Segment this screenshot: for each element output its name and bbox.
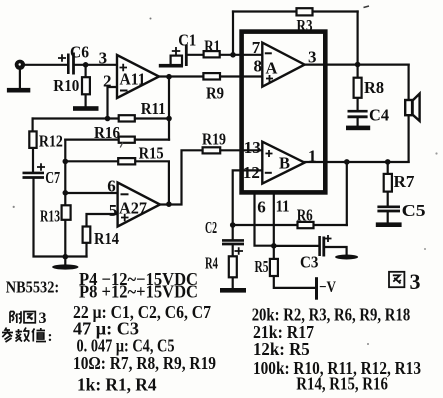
wire ground stub bottom-left bbox=[64, 257, 66, 265]
CJK 值 (zhi) bbox=[32, 328, 46, 342]
wire R5 to -V bbox=[274, 276, 315, 288]
wire C1 to R1 bbox=[187, 54, 203, 56]
wire C4 to ground bbox=[357, 118, 359, 127]
wire node to C3 bbox=[274, 245, 319, 247]
svg-text:5: 5 bbox=[109, 201, 118, 220]
svg-text:C6: C6 bbox=[70, 42, 89, 61]
wire R11 left segment bbox=[33, 117, 119, 119]
wire R6 right segment bbox=[314, 224, 347, 226]
op-amp B (lower half) bbox=[262, 142, 304, 184]
svg-text:3: 3 bbox=[99, 49, 108, 68]
wire R14 bottom lead bbox=[85, 243, 87, 257]
wire jack stub to ground bbox=[19, 69, 21, 89]
node pin6-11/R5/C3 bbox=[271, 243, 277, 249]
wire R16 left segment bbox=[65, 139, 118, 141]
wire A27 pin6 bbox=[65, 192, 117, 194]
svg-text:3: 3 bbox=[308, 47, 317, 66]
node A27 output bbox=[166, 201, 172, 207]
svg-text:3: 3 bbox=[410, 269, 421, 294]
capacitor C5 bbox=[377, 207, 400, 211]
wire R10 bottom lead bbox=[84, 94, 86, 105]
speaker BL bbox=[405, 94, 419, 121]
svg-text:13: 13 bbox=[244, 138, 261, 157]
wire A11 output to R9 bbox=[159, 75, 203, 77]
wire C3 to ground bbox=[325, 247, 347, 256]
ground (R10) bbox=[73, 106, 99, 111]
capacitor C4 bbox=[348, 111, 368, 117]
ground (bottom left) bbox=[52, 264, 78, 269]
wire R11 right segment bbox=[135, 117, 169, 119]
input jack J bbox=[15, 60, 25, 70]
resistor R14 bbox=[83, 227, 91, 243]
IC box U1 bbox=[242, 32, 326, 193]
resistor R16 bbox=[119, 137, 135, 143]
wire A27 output to R19 riser bbox=[160, 150, 203, 204]
scan speck bottom bbox=[367, 343, 369, 345]
ground (R4) bbox=[220, 288, 246, 293]
svg-text:B: B bbox=[279, 154, 290, 173]
ground (C3) bbox=[335, 255, 358, 260]
wire C2 to R4 bbox=[232, 245, 234, 256]
node A11 input (C6/R10) bbox=[83, 62, 89, 68]
ground (jack) bbox=[7, 88, 30, 93]
CJK 数 (shu) bbox=[16, 328, 30, 342]
svg-text:−V: −V bbox=[319, 279, 336, 296]
wire R7 top lead bbox=[387, 162, 389, 174]
svg-text:1: 1 bbox=[308, 147, 317, 166]
svg-text:A: A bbox=[266, 59, 278, 78]
wire R3 left riser bbox=[232, 12, 234, 55]
wire R6 riser to output1 bbox=[346, 162, 348, 225]
svg-text:R14, R15, R16: R14, R15, R16 bbox=[296, 374, 388, 394]
wire R7 to C5 bbox=[387, 192, 389, 206]
wire output1 to speaker column bbox=[305, 161, 409, 163]
wire R19 to pin13 bbox=[220, 149, 262, 151]
svg-text:A11: A11 bbox=[120, 70, 146, 89]
svg-text::: : bbox=[48, 329, 53, 345]
wire R12 top lead bbox=[31, 119, 33, 132]
resistor R3 bbox=[297, 8, 313, 15]
wire C5 to ground bbox=[387, 212, 389, 223]
svg-text:R15: R15 bbox=[139, 144, 164, 163]
node R15 left bbox=[63, 159, 69, 165]
svg-text:R16: R16 bbox=[94, 123, 120, 142]
wire pin6 down and right bbox=[255, 195, 274, 246]
wire pin11 down to R5 bbox=[273, 195, 275, 259]
wire R3 right riser down bbox=[357, 12, 359, 78]
svg-text:P8 +12~+15VDC: P8 +12~+15VDC bbox=[79, 282, 198, 302]
resistor R4 bbox=[229, 256, 237, 277]
wire bottom ground bus bbox=[65, 255, 86, 257]
CJK 参 (can) bbox=[2, 328, 13, 343]
capacitor C7 bbox=[23, 163, 46, 177]
resistor R6 bbox=[298, 222, 314, 228]
svg-text:2: 2 bbox=[103, 72, 112, 91]
ground (C1 bar) bbox=[159, 64, 183, 68]
svg-text:R19: R19 bbox=[202, 129, 226, 148]
wire R16 right segment bbox=[135, 139, 169, 141]
svg-text:8: 8 bbox=[254, 57, 263, 76]
resistor R7 bbox=[384, 174, 392, 192]
wire output3 to speaker column bbox=[305, 63, 409, 65]
wire R3 to right riser bbox=[313, 10, 358, 12]
svg-text:C5: C5 bbox=[402, 201, 426, 220]
resistor R8 bbox=[354, 78, 362, 98]
svg-text:6: 6 bbox=[257, 198, 266, 217]
node R11/output riser bbox=[166, 116, 172, 122]
wire A27 pin5 to R14 bbox=[87, 214, 118, 227]
node pin2/R11 bbox=[105, 116, 111, 122]
svg-text:R10: R10 bbox=[53, 76, 79, 95]
node A11 output bbox=[166, 74, 172, 80]
svg-text:C4: C4 bbox=[369, 105, 389, 124]
svg-text:3: 3 bbox=[39, 310, 47, 327]
node R1/R3 bbox=[230, 52, 236, 58]
CJK 图 (tu) large for 图3 bbox=[389, 272, 404, 287]
wire R12 to C7 bbox=[32, 148, 34, 172]
wire top bus to R3 bbox=[233, 10, 297, 12]
scan speck left bbox=[13, 206, 15, 208]
svg-text:R3: R3 bbox=[297, 16, 313, 35]
svg-text:C2: C2 bbox=[205, 218, 217, 237]
svg-text:10Ω: R7, R8, R9, R19: 10Ω: R7, R8, R9, R19 bbox=[73, 353, 216, 373]
wire R15 right segment to A27 output bbox=[135, 161, 169, 204]
svg-text:R6: R6 bbox=[297, 206, 313, 225]
wire node to C2 bbox=[232, 225, 234, 239]
svg-text:A27: A27 bbox=[119, 199, 147, 218]
node pin6 A27 bbox=[63, 190, 69, 196]
wire R15 left segment bbox=[65, 160, 118, 162]
svg-text:C1: C1 bbox=[178, 31, 196, 50]
svg-text:12: 12 bbox=[243, 163, 260, 182]
node output3/R3/R8 bbox=[355, 62, 361, 68]
svg-text:R7: R7 bbox=[394, 172, 416, 191]
svg-text:R11: R11 bbox=[141, 99, 166, 118]
svg-text:R12: R12 bbox=[39, 132, 63, 151]
svg-text:C3: C3 bbox=[300, 253, 319, 272]
scan speck right lower bbox=[424, 248, 426, 250]
svg-text:NB5532:: NB5532: bbox=[6, 278, 60, 297]
wire R4 to ground bbox=[232, 277, 234, 288]
svg-text:C7: C7 bbox=[45, 168, 60, 187]
scan speck top right bbox=[364, 6, 370, 8]
wire input jack to C6 bbox=[25, 64, 68, 66]
capacitor C1 (+ plate grounded) bbox=[171, 45, 187, 66]
op-amp A (upper half) bbox=[262, 43, 304, 87]
svg-text:R4: R4 bbox=[205, 254, 218, 273]
wire R8 bottom to C4 bbox=[357, 98, 359, 110]
node pin12/R6/C2 bbox=[230, 222, 236, 228]
wire node to R6 bbox=[233, 224, 298, 226]
resistor R9 bbox=[203, 73, 220, 79]
resistor R15 bbox=[118, 158, 135, 164]
scan speck mid bbox=[150, 18, 152, 20]
resistor R1 bbox=[204, 51, 220, 57]
wire R10 top lead bbox=[84, 65, 86, 77]
wire A11 pin2 bbox=[108, 87, 118, 119]
resistor R13 bbox=[62, 205, 71, 220]
resistor R19 bbox=[203, 147, 221, 153]
svg-text:R1: R1 bbox=[204, 36, 220, 55]
capacitor C2 bbox=[222, 240, 244, 254]
op-amp A27 bbox=[118, 183, 160, 227]
ground (C4) bbox=[346, 126, 370, 131]
svg-text:6: 6 bbox=[107, 176, 116, 195]
CJK 附 (fu) bbox=[10, 311, 22, 323]
svg-text:R9: R9 bbox=[206, 83, 224, 102]
svg-text:R5: R5 bbox=[255, 257, 269, 276]
node output1/R7 bbox=[385, 159, 391, 165]
wire C7 bottom to ground node bbox=[34, 179, 66, 257]
wire pin12 feedback node bbox=[233, 170, 263, 225]
resistor R5 bbox=[270, 259, 278, 276]
scan speck right margin bbox=[435, 152, 437, 154]
svg-text:1k: R1, R4: 1k: R1, R4 bbox=[77, 375, 157, 395]
resistor R11 bbox=[119, 115, 135, 121]
wire C6 to A11 pin3 bbox=[75, 64, 117, 66]
svg-text:R8: R8 bbox=[364, 78, 384, 97]
wire R13 bottom lead bbox=[64, 220, 66, 257]
resistor R12 bbox=[29, 131, 36, 148]
op-amp A11 bbox=[117, 55, 159, 98]
svg-text:R14: R14 bbox=[94, 229, 119, 248]
wire A11 output vertical to R11 R16 bbox=[168, 77, 170, 140]
wire left vertical node column bbox=[64, 140, 66, 206]
svg-text:11: 11 bbox=[276, 196, 290, 215]
svg-text:R13: R13 bbox=[40, 206, 60, 225]
wire R9 to pin8 bbox=[220, 75, 262, 77]
svg-text:12k: R5: 12k: R5 bbox=[253, 339, 310, 359]
capacitor C3 bbox=[320, 235, 332, 257]
wire R1 to pin7 bbox=[220, 54, 263, 56]
-V supply bar bbox=[315, 277, 318, 300]
svg-text:7: 7 bbox=[252, 38, 261, 57]
capacitor C6 bbox=[58, 53, 74, 75]
wire speaker column vertical bbox=[408, 65, 410, 162]
ground (C5) bbox=[376, 222, 402, 227]
resistor R10 bbox=[82, 77, 90, 94]
CJK 图 (tu) small bbox=[24, 312, 35, 323]
node output1/R6 bbox=[344, 159, 350, 165]
node ground bottom-left bbox=[63, 254, 69, 260]
scan mark slash near R16 bbox=[120, 143, 123, 148]
